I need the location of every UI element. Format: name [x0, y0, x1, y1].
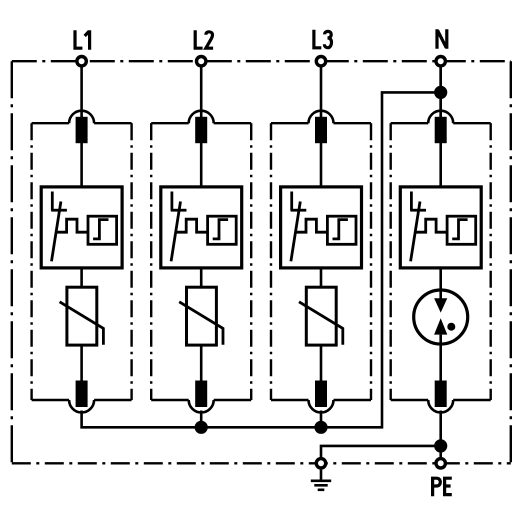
varistor L2: [179, 287, 223, 345]
disconnector switch symbol N: [410, 192, 447, 262]
wire L3 terminal to top contact: [320, 67, 323, 120]
terminal PE: [436, 459, 445, 468]
ground symbol: [311, 470, 331, 490]
wire PE node to earth terminal: [321, 446, 441, 457]
protection module enclosure L2 (dash-dot box with plug-in domes): [151, 123, 251, 400]
wire N spark gap to bottom contact: [439, 344, 442, 382]
wire L2 terminal to top contact: [200, 67, 203, 120]
wire N disconnector to element: [439, 267, 442, 299]
wire L1 contact to disconnector: [80, 142, 83, 188]
wire L1 disconnector to element: [80, 267, 83, 289]
junction node N top: [434, 86, 447, 99]
plug contact bottom L2: [195, 381, 207, 408]
wire L1 terminal to top contact: [80, 67, 83, 120]
disconnector switch symbol L2: [171, 192, 208, 262]
terminal L3: [316, 57, 325, 66]
earth terminal circle: [316, 459, 325, 468]
wire N terminal to top contact: [439, 67, 442, 120]
plug-in dome bottom L3: [309, 400, 334, 413]
label PE: [433, 478, 452, 496]
wire N contact to disconnector: [439, 142, 442, 188]
plug-in dome top L2: [189, 111, 214, 123]
thermal disconnector box L2: [161, 187, 242, 268]
wire L1 varistor to bottom contact: [80, 344, 83, 382]
wire N bottom contact to PE terminal: [439, 411, 442, 458]
protection module enclosure L1 (dash-dot box with plug-in domes): [32, 123, 132, 400]
plug-in dome bottom L1: [69, 400, 94, 413]
thermal disconnector box N: [400, 187, 481, 268]
plug contact top N: [435, 117, 447, 143]
junction node bus L2: [195, 421, 208, 434]
disconnector switch symbol L3: [291, 192, 328, 262]
label L1: [75, 30, 90, 50]
label L2: [195, 30, 213, 48]
terminal L2: [197, 57, 206, 66]
plug-in dome bottom L2: [189, 400, 214, 412]
plug contact bottom L1: [76, 381, 88, 408]
plug contact top L1: [76, 117, 88, 143]
label N: [437, 29, 447, 49]
plug-in dome top N: [428, 111, 453, 124]
label L3: [314, 30, 332, 48]
wire L2 bottom to bus: [200, 411, 203, 428]
thermal disconnector box L1: [41, 187, 122, 268]
varistor L3: [299, 287, 343, 345]
thermal trip element L1: [88, 216, 117, 244]
thermal trip element N: [447, 216, 476, 244]
wire L3 bottom to bus: [320, 411, 323, 428]
plug contact bottom N: [435, 381, 447, 408]
varistor L1: [60, 287, 104, 345]
junction node PE: [434, 439, 447, 452]
wire L3 varistor to bottom contact: [320, 344, 323, 382]
plug contact top L2: [195, 117, 207, 143]
thermal trip element L2: [208, 216, 237, 244]
junction node bus L3: [314, 421, 327, 434]
wire L2 contact to disconnector: [200, 142, 203, 188]
wire L2 disconnector to element: [200, 267, 203, 289]
wire L2 varistor to bottom contact: [200, 344, 203, 382]
plug contact top L3: [315, 117, 327, 143]
protection module enclosure N (dash-dot box with plug-in domes): [391, 123, 491, 400]
terminal L1: [77, 57, 86, 66]
thermal trip element L3: [327, 216, 356, 244]
terminal N: [436, 57, 445, 66]
wire N terminal down through module: [439, 67, 442, 120]
thermal disconnector box L3: [281, 187, 362, 268]
spark gap N: [414, 289, 468, 345]
protection module enclosure L3 (dash-dot box with plug-in domes): [271, 123, 371, 400]
disconnector switch symbol L1: [51, 192, 88, 262]
plug-in dome top L3: [309, 111, 334, 124]
plug-in dome bottom N: [428, 400, 453, 413]
wire L3 contact to disconnector: [320, 142, 323, 188]
wire L3 disconnector to element: [320, 267, 323, 289]
plug-in dome top L1: [69, 111, 94, 124]
plug contact bottom L3: [315, 381, 327, 408]
outer device enclosure (dash-dot): [12, 61, 511, 463]
wire L1 bottom to PE-bus riser to N node: [82, 92, 441, 427]
